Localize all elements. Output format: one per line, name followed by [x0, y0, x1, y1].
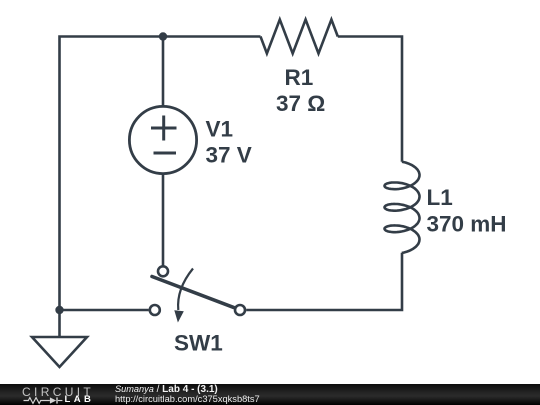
- SW1 blade: [152, 277, 234, 308]
- resistor R1: [261, 20, 338, 54]
- junction node N1 (top, V1 tap): [159, 32, 167, 40]
- footer title: Sumanya / Lab 4 - (3.1): [115, 384, 218, 396]
- voltage source V1 (circle): [129, 106, 196, 173]
- wire: left rail continues to ground junction N2: [60, 160, 149, 310]
- svg-text:37 Ω: 37 Ω: [276, 91, 325, 116]
- footer black bar: [0, 384, 540, 405]
- svg-text:37 V: 37 V: [206, 143, 252, 168]
- junction node N2 (ground junction): [55, 306, 63, 314]
- V1 plus sign: [151, 116, 177, 154]
- V1 minus sign: [154, 152, 177, 155]
- inductor L1: [385, 162, 420, 253]
- CircuitLab logo: CIRCUIT: [22, 386, 94, 400]
- wire: top rail from top-left corner to R1 left lead: [60, 37, 261, 161]
- wire: V1 bottom to SW1 common terminal: [162, 174, 165, 266]
- svg-text:V1: V1: [206, 117, 234, 142]
- svg-text:R1: R1: [285, 65, 314, 90]
- SW1 right throw terminal: [235, 305, 245, 315]
- wire: node N1 down to V1 top: [162, 37, 165, 107]
- SW1 left throw terminal: [150, 305, 160, 315]
- footer url: [115, 394, 260, 405]
- wire: L1 bottom to bottom-right corner to SW1 right terminal: [246, 253, 402, 310]
- switch SW1: [150, 266, 245, 322]
- SW1 common terminal (top): [158, 266, 168, 276]
- SW1 actuation arrow: [178, 269, 193, 311]
- svg-text:SW1: SW1: [174, 331, 223, 356]
- svg-text:L1: L1: [427, 185, 453, 210]
- svg-text:370 mH: 370 mH: [427, 212, 507, 237]
- wire: R1 right lead to top-right corner down to L1 top: [338, 37, 402, 162]
- CircuitLab logo: LAB: [65, 395, 95, 405]
- CircuitLab logo doodle: wire + resistor + diode: [22, 395, 66, 405]
- ground symbol: [32, 310, 87, 367]
